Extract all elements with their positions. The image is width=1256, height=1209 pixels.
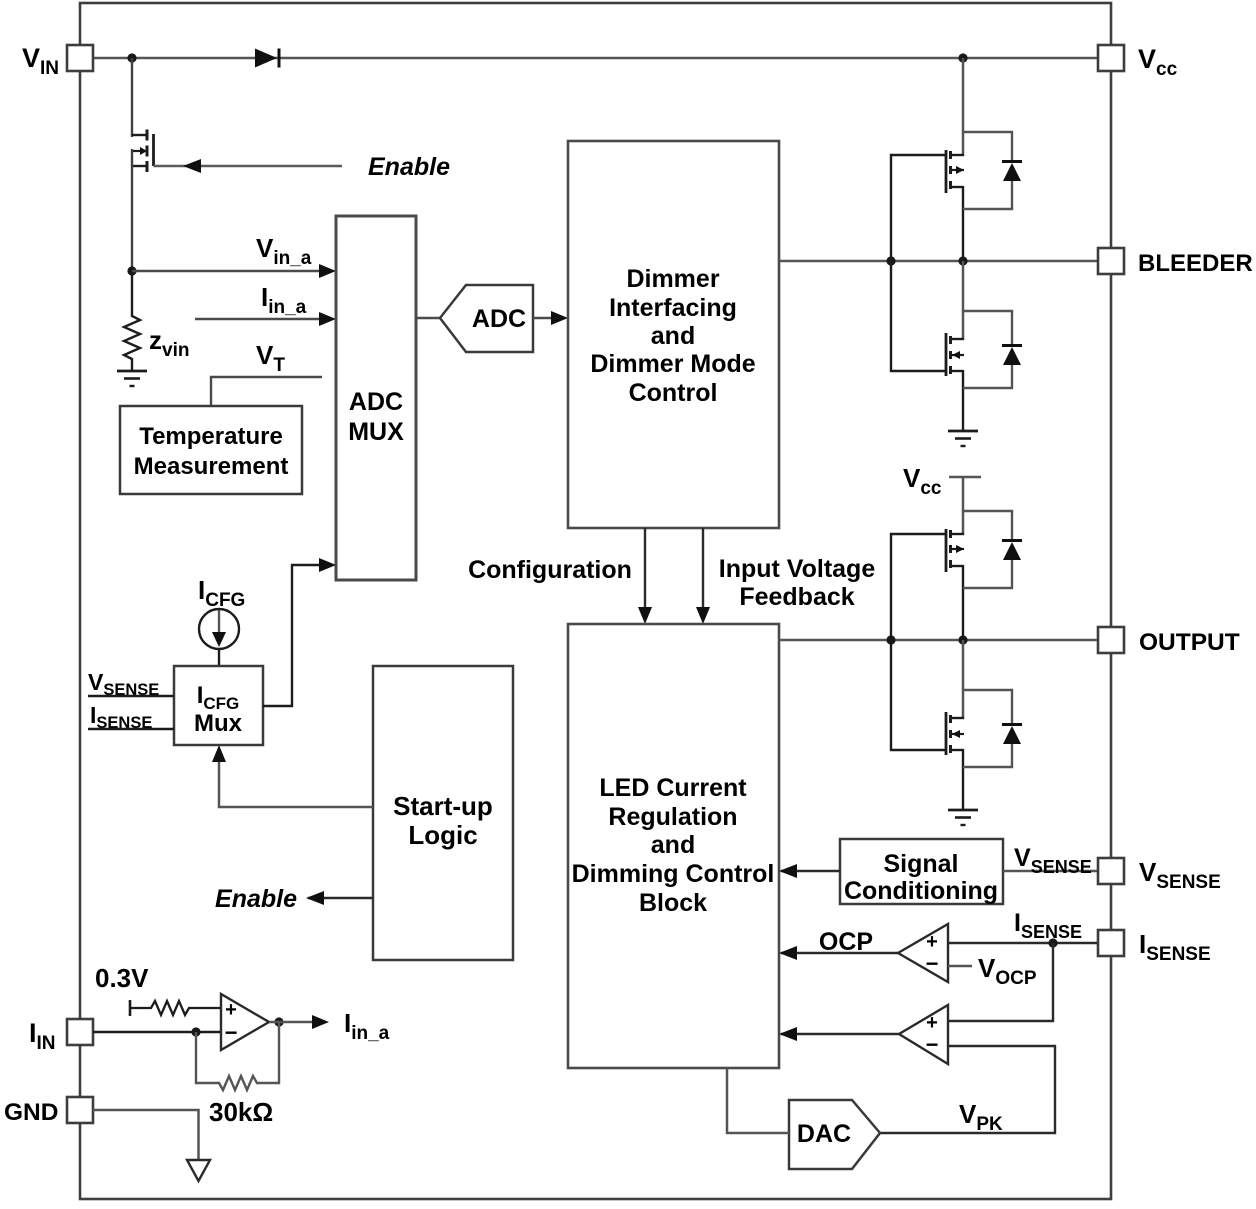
svg-text:Regulation: Regulation — [608, 803, 737, 831]
transistor Q1 enable switch — [132, 130, 154, 173]
arrowhead Enable — [183, 159, 201, 173]
svg-text:Enable: Enable — [215, 885, 297, 913]
wire: VT from Temperature block to ADC MUX — [211, 377, 322, 406]
svg-text:VOCP: VOCP — [978, 953, 1037, 989]
DAC pentagon — [789, 1100, 880, 1169]
ground triangle — [187, 1160, 210, 1181]
ADC converter pentagon — [440, 285, 533, 352]
wire: GND pin to ground triangle — [93, 1110, 199, 1160]
wire: VCC rail down to Q2 drain — [962, 58, 965, 156]
node: ISENSE junction — [1048, 938, 1057, 947]
wire: Enable output of Start-up Logic — [308, 897, 373, 899]
pin VCC — [1098, 45, 1124, 71]
wire: ADC to Dimmer block — [533, 317, 558, 319]
svg-text:Start-up: Start-up — [393, 791, 493, 821]
svg-text:BLEEDER: BLEEDER — [1138, 250, 1253, 277]
wire: mux output up to ADC MUX — [263, 565, 326, 706]
comparator U2 OCP — [898, 924, 948, 982]
svg-text:GND: GND — [4, 1099, 58, 1126]
ground below z_vin — [117, 371, 147, 386]
svg-text:−: − — [225, 1020, 238, 1045]
svg-text:Dimming Control: Dimming Control — [572, 860, 775, 888]
svg-text:ISENSE: ISENSE — [90, 702, 152, 732]
node: IIN feedback junction — [191, 1027, 200, 1036]
wire: Configuration arrow Dimmer to LED block — [644, 528, 646, 615]
wire: Iin_a to ADC MUX — [195, 318, 326, 321]
ground below Q3 — [948, 431, 978, 446]
svg-text:Dimmer: Dimmer — [626, 265, 719, 293]
pin IIN — [67, 1019, 93, 1045]
svg-text:Conditioning: Conditioning — [844, 877, 998, 905]
svg-text:ISENSE: ISENSE — [1139, 929, 1211, 965]
svg-text:Iin_a: Iin_a — [261, 282, 307, 318]
wire: peak comparator output to LED block — [781, 1033, 899, 1035]
svg-text:Temperature: Temperature — [139, 423, 283, 450]
wire: VIN junction down to Q1 drain — [131, 58, 133, 137]
svg-text:Configuration: Configuration — [468, 556, 632, 584]
svg-text:+: + — [926, 1012, 938, 1034]
svg-text:0.3V: 0.3V — [95, 963, 149, 993]
block: Dimmer Interfacing and Dimmer Mode Control — [568, 141, 779, 528]
ground below Q5 — [948, 810, 978, 825]
svg-text:+: + — [225, 999, 237, 1021]
svg-text:ICFG: ICFG — [198, 575, 245, 611]
wire: OCP comparator output to LED block — [781, 952, 898, 954]
wire: VIN to VCC top rail — [93, 57, 1098, 60]
wire: ISENSE pin to OCP comparator — [948, 942, 1098, 944]
wire: VSENSE into mux — [88, 695, 174, 697]
wire: Input Voltage Feedback arrow Dimmer to LED block — [702, 528, 704, 615]
body diode of Q4 — [963, 511, 1022, 588]
svg-text:ISENSE: ISENSE — [1014, 909, 1082, 942]
comparator U3 peak current — [899, 1005, 948, 1064]
transistor Q2 bleeder high-side — [946, 150, 964, 262]
wire: bleeder net Dimmer to BLEEDER pin — [779, 260, 1098, 263]
diode D1 on top rail — [255, 49, 279, 68]
block: Signal Conditioning — [840, 839, 1003, 904]
svg-text:Input Voltage: Input Voltage — [719, 555, 876, 583]
svg-text:Block: Block — [639, 889, 707, 917]
node: output gate rail junction — [886, 635, 895, 644]
svg-text:ADC: ADC — [472, 305, 526, 333]
svg-text:OCP: OCP — [819, 928, 873, 956]
svg-text:VT: VT — [256, 340, 285, 376]
svg-text:Vin_a: Vin_a — [256, 233, 312, 269]
svg-text:Feedback: Feedback — [739, 583, 854, 611]
wire: ISENSE into mux — [88, 728, 174, 730]
pin ISENSE — [1098, 930, 1124, 956]
wire: Q1 source down to Vin_a node — [131, 149, 133, 273]
node: Vin_a junction — [127, 266, 136, 275]
wire: output net LED block to OUTPUT pin — [779, 639, 1098, 642]
wire: IIN pin to op-amp minus input — [93, 1031, 220, 1033]
wire: VOCP stub — [948, 965, 972, 967]
svg-text:Mux: Mux — [194, 710, 243, 737]
current source ICFG — [199, 609, 239, 666]
svg-text:VSENSE: VSENSE — [88, 669, 159, 699]
wire: Vin_a to ADC MUX — [132, 270, 326, 273]
svg-text:and: and — [651, 831, 695, 859]
svg-text:Vcc: Vcc — [903, 463, 942, 499]
wire: bleeder midpoint down to Q3 drain — [962, 261, 965, 340]
svg-text:Measurement: Measurement — [134, 453, 289, 480]
block: LED Current Regulation and Dimming Control Block — [568, 624, 779, 1068]
0.3V source tick — [129, 1000, 132, 1016]
body diode of Q2 — [963, 132, 1022, 209]
svg-text:30kΩ: 30kΩ — [209, 1097, 273, 1127]
block: ADC MUX — [336, 216, 416, 580]
svg-text:DAC: DAC — [797, 1120, 851, 1148]
svg-text:Logic: Logic — [408, 820, 477, 850]
svg-text:and: and — [651, 322, 695, 350]
wire: bleeder gate rail — [891, 155, 946, 371]
wire: output gate rail — [891, 534, 946, 750]
transistor Q3 bleeder low-side — [946, 333, 964, 432]
svg-text:OUTPUT: OUTPUT — [1139, 629, 1240, 656]
svg-text:IIN: IIN — [29, 1018, 56, 1054]
svg-text:Control: Control — [629, 379, 718, 407]
svg-text:ADC: ADC — [349, 388, 403, 416]
transistor Q4 output high-side — [946, 529, 964, 641]
resistor z_vin — [124, 273, 140, 370]
wire: op-amp output Iin_a — [269, 1021, 315, 1023]
svg-text:Interfacing: Interfacing — [609, 294, 737, 322]
wire: LED block to DAC — [727, 1068, 789, 1133]
svg-text:zvin: zvin — [149, 325, 189, 361]
wire: Start-up Logic to ICFG Mux — [219, 755, 373, 807]
svg-text:Vcc: Vcc — [1138, 44, 1178, 80]
node: op-amp output junction — [274, 1017, 283, 1026]
svg-text:Signal: Signal — [883, 850, 958, 878]
svg-text:LED Current: LED Current — [599, 774, 747, 802]
pin GND — [67, 1097, 93, 1123]
body diode of Q5 — [963, 690, 1022, 767]
pin VSENSE — [1098, 858, 1124, 884]
block: ICFG Mux — [174, 666, 263, 745]
svg-text:Enable: Enable — [368, 153, 450, 181]
svg-text:−: − — [926, 951, 939, 976]
wire: Enable to Q1 gate — [154, 165, 343, 168]
wire: ISENSE drop to peak comparator plus input — [948, 943, 1053, 1021]
node: output FET midpoint junction — [958, 635, 967, 644]
wire: VSENSE pin to Signal Conditioning — [1003, 870, 1098, 873]
transistor Q5 output low-side — [946, 712, 964, 811]
pin BLEEDER — [1098, 248, 1124, 274]
pin VIN — [67, 45, 93, 71]
svg-text:Iin_a: Iin_a — [344, 1008, 390, 1044]
node: junction VIN rail — [127, 53, 136, 62]
body diode of Q3 — [963, 311, 1022, 388]
node: bleeder FET midpoint junction — [958, 256, 967, 265]
feedback resistor 30k — [196, 1022, 279, 1090]
node: junction VCC rail to bleeder FETs — [958, 53, 967, 62]
svg-text:MUX: MUX — [348, 418, 404, 446]
wire: VCC terminal down to Q4 drain — [962, 477, 965, 535]
svg-text:Dimmer Mode: Dimmer Mode — [590, 350, 755, 378]
node: bleeder gate rail junction — [886, 256, 895, 265]
svg-text:−: − — [926, 1032, 939, 1057]
wire: ADC MUX to ADC — [416, 317, 440, 319]
resistor to op-amp plus input — [130, 1001, 221, 1015]
wire: VPK from DAC to peak comparator minus input — [880, 1046, 1055, 1133]
block: Temperature Measurement — [120, 406, 302, 494]
op-amp U4 — [221, 994, 269, 1050]
wire: Signal Conditioning to LED block — [781, 870, 840, 872]
svg-text:VIN: VIN — [22, 43, 59, 79]
pin OUTPUT — [1098, 627, 1124, 653]
wire: output midpoint down to Q5 drain — [962, 640, 965, 719]
svg-text:VSENSE: VSENSE — [1139, 857, 1221, 893]
block: Start-up Logic — [373, 666, 513, 960]
svg-text:+: + — [926, 931, 938, 953]
svg-text:VPK: VPK — [959, 1099, 1003, 1135]
